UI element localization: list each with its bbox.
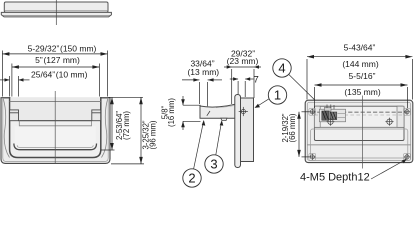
dimension 96mm bbox=[111, 97, 144, 164]
svg-text:4: 4 bbox=[278, 61, 285, 76]
svg-text:(144 mm): (144 mm) bbox=[342, 59, 379, 69]
svg-text:5-29/32” (150 mm): 5-29/32” (150 mm) bbox=[28, 43, 97, 53]
dimension 7mm bbox=[230, 77, 254, 97]
back view left screw bbox=[326, 118, 334, 126]
side view screw target bbox=[239, 107, 248, 116]
back view lower cover outline bbox=[311, 129, 408, 158]
svg-text:5” (127 mm): 5” (127 mm) bbox=[35, 55, 80, 65]
svg-text:3: 3 bbox=[210, 157, 217, 172]
svg-text:(13 mm): (13 mm) bbox=[187, 67, 219, 77]
side view flange lens bbox=[235, 95, 241, 168]
side view grip arm bbox=[200, 104, 236, 118]
front view cup floor shading bbox=[15, 126, 96, 149]
top view centerline bbox=[55, 0, 57, 25]
dimension 150mm bbox=[2, 51, 107, 97]
dimension 66mm bbox=[297, 112, 309, 157]
back view recess rectangle bbox=[314, 106, 404, 140]
back view right end cap bbox=[397, 106, 404, 127]
back view M5 hole top-left bbox=[309, 108, 316, 115]
dimension 72mm bbox=[101, 97, 143, 150]
back view band line bbox=[307, 144, 410, 146]
callout circle 2 bbox=[183, 111, 210, 187]
svg-text:(72 mm): (72 mm) bbox=[122, 111, 131, 140]
back view right screw bbox=[385, 118, 393, 126]
svg-text:7: 7 bbox=[254, 75, 259, 86]
svg-text:5-43/64”: 5-43/64” bbox=[344, 42, 376, 52]
callout circle 3 bbox=[205, 120, 224, 173]
back view second dashed line bbox=[314, 114, 404, 116]
back view recess divider bbox=[314, 126, 404, 128]
dimension 127mm bbox=[12, 64, 100, 97]
front view centerline bbox=[54, 91, 56, 163]
dimension 144mm bbox=[307, 55, 412, 100]
front view cup inner step line bbox=[17, 145, 93, 147]
front view left clip bbox=[10, 110, 19, 121]
dimension 10mm bbox=[0, 76, 30, 97]
leader to M5 hole bbox=[371, 160, 405, 179]
front view cup inner U bbox=[14, 144, 97, 150]
svg-text:1: 1 bbox=[274, 88, 281, 103]
back view pivot dashed line bbox=[311, 111, 407, 113]
svg-text:(96 mm): (96 mm) bbox=[149, 120, 158, 149]
callout circle 1 bbox=[255, 86, 287, 108]
front view grip bottom edge bbox=[19, 120, 92, 122]
front view inner top line bbox=[10, 100, 101, 102]
svg-text:4-M5 Depth12: 4-M5 Depth12 bbox=[300, 172, 370, 184]
front view cup outer U bbox=[10, 97, 101, 158]
svg-text:2: 2 bbox=[188, 171, 195, 186]
side view mounting plate bbox=[241, 98, 254, 162]
top view flange inner line bbox=[3, 14, 110, 16]
back view inner border bbox=[307, 102, 410, 160]
top view inner line bbox=[4, 10, 108, 12]
back view left end cap bbox=[314, 106, 320, 127]
front view right clip bbox=[92, 110, 101, 121]
front view inner border bbox=[3, 99, 108, 162]
front view ledge line bbox=[19, 121, 91, 126]
dimension 13mm bbox=[182, 78, 222, 106]
svg-text:5-5/16”: 5-5/16” bbox=[349, 71, 376, 81]
front view left S-curve bbox=[3, 99, 9, 158]
dimension 135mm bbox=[315, 83, 408, 108]
dimension 16mm bbox=[181, 96, 200, 130]
back view M5 hole bottom-left bbox=[309, 154, 316, 161]
front view grip band shading bbox=[10, 98, 100, 121]
svg-text:(23 mm): (23 mm) bbox=[227, 56, 259, 66]
front view outer body bbox=[1, 98, 110, 164]
svg-text:(66 mm): (66 mm) bbox=[288, 113, 297, 142]
back view centerline bbox=[362, 96, 364, 169]
side view arm bump bbox=[221, 118, 227, 120]
back view M5 hole top-right bbox=[404, 108, 411, 115]
back view outer body bbox=[305, 100, 413, 162]
back view M5 hole bottom-right bbox=[404, 154, 411, 161]
dimension 23mm bbox=[224, 65, 261, 104]
svg-text:(135 mm): (135 mm) bbox=[344, 87, 381, 97]
svg-text:25/64” (10 mm): 25/64” (10 mm) bbox=[31, 70, 88, 80]
svg-text:(16 mm): (16 mm) bbox=[167, 98, 176, 127]
front view right S-curve bbox=[102, 99, 108, 158]
back view latch mechanism bbox=[320, 105, 346, 122]
callout circle 4 bbox=[273, 59, 327, 112]
top view body bbox=[1, 2, 111, 17]
